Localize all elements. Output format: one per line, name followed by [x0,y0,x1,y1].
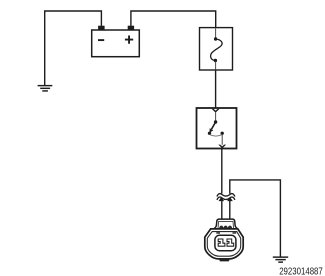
ground G1 (left) [38,85,53,92]
sensor connector body [205,219,243,261]
harness break white gap [217,195,235,198]
connector arrow (left pin, pointing up) [219,197,225,201]
switch S1 [197,108,237,149]
battery B1 [92,26,140,57]
terminal pin 2 [227,239,234,246]
body outline (inner) [207,232,240,257]
connector arrow (right pin, pointing up) [227,197,233,201]
terminal cavity [215,235,236,250]
fuse F1 [200,28,233,70]
cap (wire boot) [214,219,238,229]
ground G2 (right) [273,256,288,262]
body outline (outer) [205,229,243,259]
terminal pin 1 [218,239,225,246]
wire switch to harness break (left conductor) [221,149,223,220]
shading at cap/body junction [216,232,220,234]
bottom index tab [220,258,230,261]
svg-text:2923014887: 2923014887 [279,267,323,276]
harness break squiggles [217,194,235,200]
wire from battery positive terminal up and right to fuse [131,11,216,28]
wire from battery negative terminal up and left to ground drop [45,11,102,85]
wire fuse to switch [215,70,217,108]
wire ground branch: right conductor up, over and down to ground G2 [230,180,281,257]
